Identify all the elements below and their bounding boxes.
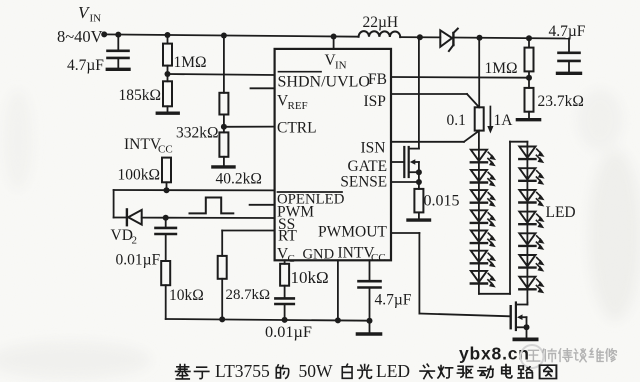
svg-text:GATE: GATE — [348, 158, 388, 175]
pin OPENLED — [277, 192, 345, 208]
node output rail left — [477, 35, 483, 41]
LED D7 — [471, 271, 496, 288]
node SHDN divider junction — [165, 71, 171, 77]
node SENSE junction — [416, 179, 422, 185]
wire PWMOUT — [391, 233, 509, 316]
node 1M top — [165, 32, 171, 38]
svg-text:LED: LED — [546, 204, 576, 221]
label 1M input — [174, 54, 207, 71]
capacitor 4.7uF output — [559, 39, 580, 72]
svg-text:CC: CC — [158, 144, 173, 156]
wire output to sense resistor — [478, 38, 480, 108]
label 0.01uF SS — [116, 252, 161, 269]
LED D3 — [471, 190, 496, 207]
node VIN pin junction — [331, 34, 337, 40]
node 332k top — [221, 33, 227, 39]
wire string link — [479, 142, 528, 294]
svg-text:IN: IN — [335, 60, 347, 72]
label 0.015 — [424, 193, 460, 210]
wire CTRL — [224, 126, 275, 128]
watermark ybx8.cn — [459, 344, 530, 364]
wire VREF stub — [251, 87, 275, 89]
label 28.7k — [226, 287, 271, 303]
label 8~40V — [57, 27, 103, 46]
pin RT — [278, 228, 297, 245]
LED D12 — [519, 233, 544, 250]
wire GND pin — [337, 260, 339, 320]
LED D10 — [519, 190, 544, 207]
capacitor 0.01uF VC — [275, 298, 293, 320]
transistor Q1 switching MOSFET — [391, 147, 419, 189]
capacitor 4.7uF INTVCC — [359, 260, 381, 332]
label 4.7uF input — [67, 57, 104, 74]
pin GND — [303, 247, 335, 263]
label 40.2k — [216, 171, 262, 188]
arrow 1A current — [487, 107, 493, 134]
svg-text:INTV: INTV — [338, 245, 376, 262]
svg-text:8~40V: 8~40V — [57, 27, 103, 46]
pin PWM — [277, 204, 314, 221]
node rail GND — [335, 317, 341, 323]
svg-text:LT3755: LT3755 — [215, 361, 270, 381]
resistor 185k (UVLO divider bottom) — [163, 74, 172, 112]
svg-text:ISN: ISN — [361, 140, 386, 157]
svg-text:GND: GND — [303, 247, 335, 263]
LED D8 — [519, 147, 544, 164]
node Q1 source — [416, 169, 422, 175]
label 1M FB — [485, 60, 518, 77]
watermark gray hanzi — [527, 348, 616, 361]
svg-text:0.1: 0.1 — [447, 112, 466, 129]
label 0.01uF VC — [265, 322, 312, 341]
label 23.7k — [538, 93, 584, 110]
svg-text:1MΩ: 1MΩ — [174, 54, 207, 71]
pin GATE — [348, 158, 388, 175]
wire SHDN/UVLO — [168, 74, 275, 75]
svg-text:FB: FB — [368, 71, 387, 88]
wire SS — [166, 217, 275, 219]
svg-text:0.01µF: 0.01µF — [265, 322, 312, 341]
diode VD1 output rectifier — [440, 29, 458, 51]
svg-text:0.015: 0.015 — [424, 193, 460, 210]
wire bottom ground rail — [166, 319, 370, 321]
resistor 10k VC — [280, 260, 289, 297]
node 1M FB top — [526, 35, 532, 41]
node rail INTVCC — [367, 318, 373, 324]
label 10k VC — [291, 268, 329, 287]
label 0.1 — [447, 112, 466, 129]
transistor Q2 dimming MOSFET — [511, 303, 528, 338]
wire VIN pin drop — [333, 37, 335, 49]
label LED — [546, 204, 576, 221]
svg-text:10kΩ: 10kΩ — [169, 287, 204, 304]
svg-text:0.01µF: 0.01µF — [116, 252, 161, 269]
svg-text:LED: LED — [376, 361, 410, 381]
node rail 28.7k — [219, 316, 225, 322]
op-amp U1 LT3755 box — [275, 49, 391, 260]
svg-text:ybx8.cn: ybx8.cn — [459, 344, 530, 364]
wire top input rail — [104, 34, 569, 38]
node input terminal — [101, 31, 107, 37]
pin VIN — [325, 52, 347, 72]
caption text — [176, 364, 557, 379]
svg-text:22µH: 22µH — [363, 14, 399, 31]
svg-text:1MΩ: 1MΩ — [485, 60, 518, 77]
pin VC — [277, 246, 295, 266]
pin PWMOUT — [318, 224, 387, 241]
ground Q2 — [514, 337, 536, 341]
resistor 332k (CTRL divider top) — [219, 36, 228, 127]
wire PWM stub — [250, 204, 275, 206]
svg-text:C: C — [288, 253, 295, 265]
svg-text:4.7µF: 4.7µF — [375, 292, 412, 309]
node CTRL junction — [221, 124, 227, 130]
svg-text:4.7µF: 4.7µF — [67, 57, 104, 74]
svg-text:1A: 1A — [494, 112, 514, 129]
label 100k — [118, 167, 161, 184]
resistor 1M (UVLO divider top) — [163, 35, 172, 74]
svg-text:100kΩ: 100kΩ — [118, 167, 161, 184]
ground 0.015 — [408, 218, 430, 221]
svg-text:332kΩ: 332kΩ — [176, 125, 219, 142]
pin ISP — [364, 93, 386, 110]
pin SS — [278, 216, 295, 233]
LED D13 — [519, 255, 544, 272]
label 10k SS — [169, 287, 204, 304]
label 332k — [176, 125, 219, 142]
ground 23.7k — [517, 118, 539, 121]
pin FB — [368, 71, 387, 88]
pin ISN — [361, 140, 386, 157]
wire LED string column 1 — [478, 131, 480, 294]
LED D11 — [519, 212, 544, 229]
pin SENSE — [340, 174, 387, 191]
pin VREF — [277, 93, 308, 113]
label 22uH — [363, 14, 399, 31]
watermark circle logo — [521, 345, 544, 368]
node rail VC — [282, 317, 288, 323]
wire ISN — [391, 131, 479, 142]
label VIN supply — [78, 3, 101, 25]
svg-text:2: 2 — [132, 235, 138, 247]
svg-text:CTRL: CTRL — [277, 120, 317, 137]
resistor 100k (OPENLED pullup) — [162, 158, 171, 191]
pin SHDN/UVLO — [278, 72, 370, 91]
capacitor 4.7uF input — [108, 35, 129, 68]
node Q2 source — [524, 324, 530, 330]
svg-text:SHDN/UVLO: SHDN/UVLO — [278, 74, 370, 91]
resistor 10k SS — [161, 261, 170, 319]
caption latin — [215, 361, 410, 381]
ground INTVCC — [357, 332, 380, 335]
wire RT — [222, 231, 274, 256]
svg-text:ISP: ISP — [364, 93, 386, 110]
ground output cap — [558, 72, 581, 75]
ground 185k — [157, 111, 178, 114]
LED D2 — [471, 170, 496, 187]
label 1A — [494, 112, 514, 129]
resistor 40.2k (CTRL divider bottom) — [219, 127, 228, 166]
node input cap junction — [115, 32, 121, 38]
label 185k — [119, 87, 162, 104]
svg-text:CC: CC — [371, 252, 386, 264]
LED D14 — [519, 277, 544, 294]
svg-text:VD: VD — [111, 227, 133, 244]
node OPENLED 100k junction — [164, 187, 170, 193]
inductor 22uH — [359, 31, 401, 37]
LED D1 — [471, 150, 496, 167]
LED D9 — [519, 168, 544, 185]
label 4.7uF output — [549, 23, 586, 40]
svg-text:IN: IN — [90, 13, 102, 25]
svg-text:50W: 50W — [299, 361, 334, 381]
capacitor 0.01uF SS — [156, 218, 176, 261]
wire FB — [391, 76, 529, 79]
svg-text:185kΩ: 185kΩ — [119, 87, 162, 104]
LED D6 — [471, 251, 496, 268]
waveform PWM pulse — [190, 198, 234, 214]
label 4.7uF INTVCC — [375, 292, 412, 309]
node SS junction — [163, 215, 169, 221]
resistor 1M (FB divider top) — [525, 38, 534, 77]
svg-text:10kΩ: 10kΩ — [291, 268, 329, 287]
LED D5 — [471, 231, 496, 248]
svg-text:4.7µF: 4.7µF — [549, 23, 586, 40]
wire ISP — [391, 94, 479, 107]
svg-text:23.7kΩ: 23.7kΩ — [538, 93, 584, 110]
label INTVCC net — [124, 136, 173, 156]
svg-text:PWMOUT: PWMOUT — [318, 224, 387, 241]
wire SENSE — [391, 181, 419, 183]
svg-text:SENSE: SENSE — [340, 174, 387, 191]
svg-text:RT: RT — [278, 228, 297, 245]
wire LED string column 2 — [526, 147, 528, 303]
diode VD2 — [114, 190, 166, 225]
resistor 0.1 sense — [475, 107, 484, 130]
ground input cap — [107, 68, 129, 71]
LED D4 — [471, 210, 496, 227]
resistor 23.7k (FB divider bottom) — [525, 78, 534, 119]
node FB junction — [526, 75, 532, 81]
svg-text:INTV: INTV — [124, 136, 162, 153]
wire switch node vertical — [418, 37, 420, 148]
svg-text:40.2kΩ: 40.2kΩ — [216, 171, 262, 188]
svg-text:REF: REF — [288, 100, 308, 112]
resistor 0.015 sense — [414, 189, 423, 219]
pin INTVCC — [338, 245, 386, 265]
pin CTRL — [277, 120, 317, 137]
label VD2 — [111, 227, 138, 247]
resistor 28.7k RT — [218, 256, 227, 320]
wire OPENLED — [114, 189, 275, 191]
svg-text:28.7kΩ: 28.7kΩ — [226, 287, 271, 303]
node switch junction — [417, 34, 423, 40]
ground 40.2k — [213, 165, 234, 168]
